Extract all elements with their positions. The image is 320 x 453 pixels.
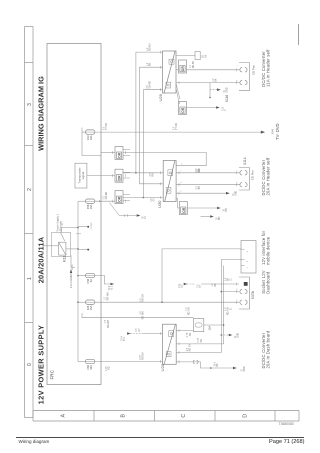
svg-text:1.0: 1.0	[186, 307, 188, 311]
wire F56 down with end arrow	[95, 276, 111, 285]
F60 wire label upper	[106, 366, 111, 371]
stub F23 from sub-compartment	[82, 131, 86, 133]
fuse pill inside output fuse box	[195, 323, 202, 327]
jog U30 to OR6	[176, 199, 179, 209]
svg-text:1.0: 1.0	[140, 311, 142, 315]
DC/DC converter U29 box	[163, 51, 177, 93]
ruler numbers 0 1 2 3	[27, 103, 33, 366]
DC/DC converter U20 box	[163, 324, 177, 364]
svg-text:30: 30	[62, 222, 64, 225]
svg-text:1.0: 1.0	[105, 296, 107, 300]
U20 fused wire label	[187, 332, 192, 337]
F24 wire label upper	[105, 292, 110, 300]
svg-text:OR: OR	[118, 196, 122, 202]
svg-text:0.75: 0.75	[106, 366, 108, 371]
svg-text:0.5: 0.5	[136, 328, 138, 332]
svg-text:BK: BK	[190, 332, 192, 336]
svg-text:0.5: 0.5	[197, 284, 199, 288]
svg-text:20A in Header self: 20A in Header self	[265, 157, 270, 195]
svg-text:1: 1	[236, 64, 238, 66]
connector X114 bracket	[239, 168, 249, 191]
wire U30 to X114 pin 1	[176, 172, 239, 174]
distribution bus A	[220, 260, 222, 353]
interface box pin numbers	[247, 250, 249, 269]
svg-text:1.0: 1.0	[140, 298, 142, 302]
svg-text:BK: BK	[215, 283, 217, 287]
wire into U20 top	[143, 333, 163, 335]
arrow B head	[210, 215, 214, 218]
FRC sub-compartment for F23	[82, 128, 101, 156]
svg-text:12V POWER SUPPLY: 12V POWER SUPPLY	[37, 325, 46, 405]
svg-text:2: 2	[236, 288, 238, 290]
connector OR4	[179, 60, 187, 73]
svg-text:Dashboard: Dashboard	[265, 271, 270, 294]
wire K11 coil to top	[44, 245, 59, 247]
wire K11 coil left pin	[71, 255, 75, 267]
svg-text:B 2: B 2	[112, 285, 114, 289]
X114 pin a arcs	[240, 183, 247, 187]
wire fuse box to bus A	[204, 324, 224, 326]
U29 pin box 2	[169, 59, 174, 64]
U20 output pin wire	[176, 352, 221, 354]
wire OR2 to U30 pin with branch to U29	[123, 172, 163, 174]
svg-text:1: 1	[236, 169, 238, 171]
From HMCU arrow	[70, 269, 72, 273]
svg-text:X4: X4	[205, 54, 207, 58]
X116 pin b arcs	[240, 68, 247, 72]
svg-text:3: 3	[27, 103, 33, 106]
bus A ground arrow	[229, 334, 233, 337]
wire FRC to OR1	[101, 152, 115, 154]
svg-text:4: 4	[182, 163, 184, 165]
svg-text:GY: GY	[154, 198, 156, 202]
svg-text:0: 0	[27, 363, 33, 366]
svg-text:1.0: 1.0	[147, 62, 149, 66]
svg-text:16.0: 16.0	[214, 361, 216, 366]
wire F24 branch to interface feed	[162, 249, 241, 302]
sheet corner mark	[298, 24, 300, 45]
svg-text:RD-WH: RD-WH	[107, 292, 109, 300]
FRC fuse/relay box	[47, 44, 101, 385]
OR3 wire label	[151, 198, 156, 202]
main feed bus inside FRC	[77, 201, 79, 361]
svg-text:1: 1	[247, 267, 249, 269]
svg-text:VT: VT	[200, 284, 202, 288]
connector OR3	[115, 191, 123, 204]
svg-text:OR: OR	[181, 66, 185, 72]
svg-text:BN: BN	[219, 216, 221, 220]
diagonal wires U29 to OR5	[176, 89, 179, 104]
svg-text:RD-BU: RD-BU	[143, 352, 145, 360]
footer left text	[19, 439, 50, 444]
svg-text:X10: X10	[222, 106, 224, 111]
U29 stub with inline box	[176, 55, 195, 57]
short drop wire with arrow A	[187, 207, 217, 209]
svg-text:U29: U29	[158, 93, 163, 101]
svg-text:11A in Header self: 11A in Header self	[265, 49, 270, 87]
svg-text:30: 30	[142, 216, 144, 219]
svg-text:B: B	[121, 413, 127, 417]
arrow A label	[223, 208, 228, 212]
svg-text:BK: BK	[199, 186, 201, 190]
upper reference arrow labels	[142, 215, 147, 219]
connector X37A bracket	[239, 277, 250, 309]
inline box labels	[202, 54, 208, 58]
stub bus to F56	[78, 275, 86, 277]
svg-text:0.5: 0.5	[150, 172, 152, 176]
connector OR1	[115, 147, 123, 160]
svg-text:0.5: 0.5	[103, 126, 105, 130]
bus A ground label	[235, 333, 240, 338]
svg-text:40A relay: 40A relay	[59, 220, 62, 231]
OR2 wire label	[150, 172, 155, 176]
svg-text:RD-BU: RD-BU	[150, 43, 152, 51]
U30 arrow	[226, 192, 230, 195]
svg-text:OR: OR	[118, 175, 122, 181]
svg-text:0.75: 0.75	[187, 332, 189, 337]
fuse F58	[86, 199, 95, 203]
wire branch to U29 pin 3	[143, 90, 162, 198]
bus A ground tap junction	[221, 334, 223, 336]
wire OR1 down to U30 right pin	[123, 153, 206, 166]
extra wire label below F56 ref	[212, 283, 217, 287]
F56 arrow reference label	[109, 285, 114, 290]
svg-text:0.5: 0.5	[103, 195, 105, 199]
arrow B label	[217, 216, 222, 220]
wire U29 through OR4 to X116 pin 1	[176, 69, 179, 71]
svg-text:0.75: 0.75	[198, 337, 200, 342]
TV-DVD arrow	[261, 131, 265, 134]
stub bus to F24	[78, 301, 86, 303]
svg-text:BK: BK	[216, 78, 218, 82]
bus terminal stub right	[79, 226, 89, 228]
svg-text:31: 31	[233, 193, 235, 196]
svg-text:30: 30	[217, 217, 219, 220]
svg-text:2: 2	[247, 260, 249, 262]
wire U30 pin to page arrow	[176, 192, 226, 194]
upper reference wire	[119, 215, 137, 217]
F23 value label	[86, 135, 93, 140]
svg-text:F56: F56	[179, 283, 181, 288]
svg-text:1: 1	[236, 298, 238, 300]
svg-text:20A in Dash board: 20A in Dash board	[265, 330, 270, 368]
footer right page number	[269, 439, 304, 445]
relay K11 outer box	[52, 233, 71, 257]
wire Transponder box to OR2	[87, 175, 115, 177]
12V interface connector box	[241, 241, 256, 274]
assorted pin tick marks	[160, 51, 236, 364]
svg-text:2.5: 2.5	[196, 185, 198, 189]
U20 ground end arrow	[233, 367, 237, 370]
wire OR5 down to arrow	[187, 107, 217, 109]
svg-text:1.0: 1.0	[212, 283, 214, 287]
svg-text:D: D	[243, 414, 249, 418]
F56 source reference label	[179, 283, 184, 288]
U20 output label	[187, 343, 192, 351]
connector OR6	[179, 202, 187, 215]
svg-text:WIRING DIAGRAM IG: WIRING DIAGRAM IG	[37, 76, 46, 151]
svg-text:2.5: 2.5	[187, 347, 189, 351]
svg-text:2.5: 2.5	[196, 168, 198, 172]
svg-text:U20: U20	[160, 363, 165, 371]
svg-text:1.0: 1.0	[225, 307, 227, 311]
connector OR5	[179, 102, 187, 115]
connector pin numbers	[236, 64, 238, 300]
inline box on U29 stub	[195, 52, 200, 60]
svg-text:1.0: 1.0	[147, 47, 149, 51]
svg-text:B 4: B 4	[124, 337, 126, 341]
svg-text:RD-BU: RD-BU	[193, 60, 195, 68]
svg-text:RD: RD	[199, 168, 201, 172]
wire F23 to TV-DVD	[95, 131, 261, 133]
svg-text:31: 31	[224, 89, 226, 92]
fuse F60	[86, 359, 95, 363]
OR1 wire label	[196, 169, 201, 173]
upper reference arrow head	[137, 214, 141, 217]
wire OR3 to U30 pin with branch to U29	[123, 197, 163, 199]
U20 input reference arrow	[127, 332, 131, 334]
svg-text:X37A: X37A	[251, 290, 255, 299]
svg-text:RD-WH: RD-WH	[143, 311, 145, 319]
svg-text:OR: OR	[182, 207, 186, 213]
connector OR2	[115, 169, 123, 182]
FRC feed wire label	[105, 319, 110, 328]
stub bus to F58	[78, 200, 86, 202]
svg-text:10A: 10A	[89, 204, 93, 209]
svg-text:GND: GND	[238, 333, 240, 338]
U29 pin labels	[147, 43, 152, 88]
wire F58 to OR3	[95, 200, 115, 202]
short drop wire with arrow B	[201, 216, 211, 218]
svg-text:X9/4: X9/4	[270, 128, 274, 134]
OR1 output pair stubs	[123, 150, 130, 156]
svg-text:1: 1	[27, 277, 33, 280]
DC/DC converter U30 box	[163, 161, 176, 202]
relay annotation Power Supply 1 40A relay	[56, 213, 62, 231]
tap junction dot	[209, 97, 211, 99]
svg-text:RD-WH: RD-WH	[108, 320, 110, 328]
OR2 output pair stubs	[123, 172, 130, 178]
wire F60 to U20	[95, 361, 163, 363]
diagonal link OR3 to reference wire	[110, 203, 120, 216]
drawing number	[279, 422, 294, 426]
fuse F56	[86, 273, 95, 277]
wire U20 to output fuse	[176, 330, 193, 332]
svg-text:15A: 15A	[208, 326, 212, 331]
wire U30 pin to U29 pin 2	[140, 67, 164, 184]
bus junction dots	[221, 291, 225, 326]
F24 wire labels mid	[140, 311, 145, 320]
svg-text:U30: U30	[157, 200, 162, 208]
U20 output fuse box	[193, 319, 204, 332]
svg-text:2: 2	[236, 181, 238, 183]
U20 pin box 2	[169, 331, 174, 337]
svg-text:2: 2	[236, 79, 238, 81]
wire U29 to X116 pin 2	[176, 82, 240, 84]
svg-text:0.75: 0.75	[140, 355, 142, 360]
X114 feed label 1	[196, 168, 201, 172]
branch junction on OR2 wire	[135, 172, 137, 174]
F58 wire dot at box edge	[99, 201, 100, 202]
junction on U20 ground wire	[210, 367, 212, 369]
X37A feed wire labels left	[225, 307, 232, 315]
footer rule	[16, 437, 304, 438]
svg-text:0.5: 0.5	[147, 85, 149, 89]
svg-text:signal: signal	[81, 171, 85, 179]
F23 wire label upper	[103, 123, 108, 130]
svg-text:2.5 RD: 2.5 RD	[91, 222, 93, 229]
F58 wire label	[103, 191, 108, 199]
label DC/DC Converter 20A in Dash board	[261, 330, 271, 368]
svg-text:31: 31	[230, 278, 232, 281]
svg-text:86 85: 86 85	[72, 264, 74, 270]
svg-text:1.0: 1.0	[225, 277, 227, 281]
upper reference pin ticks	[125, 214, 128, 217]
svg-text:CB Pwr: CB Pwr	[251, 65, 255, 75]
Transponder signal box text	[77, 167, 85, 183]
OR4 wire label	[190, 60, 195, 68]
connector X116 bracket	[239, 63, 249, 91]
wire to X37A left pin	[201, 283, 239, 285]
X37A feed wire labels right	[225, 277, 232, 281]
svg-text:OR: OR	[118, 152, 122, 158]
svg-text:GN-RD: GN-RD	[150, 81, 152, 89]
svg-text:4.7: 4.7	[145, 215, 147, 219]
U30 bottom pin numbers	[181, 163, 184, 192]
svg-text:2: 2	[225, 109, 227, 111]
letter strip (left of landscape sheet)	[33, 411, 299, 422]
wire bus to interface pin 2	[221, 259, 241, 261]
svg-text:OR: OR	[181, 107, 185, 113]
label 12V interface for mobile device	[261, 230, 271, 265]
svg-text:TV- DVD: TV- DVD	[275, 123, 280, 140]
svg-text:5A: 5A	[202, 55, 205, 58]
svg-text:2: 2	[27, 188, 33, 191]
dashed wire into U20	[131, 333, 143, 335]
F24 wire label lower	[186, 307, 191, 315]
X37A pin arcs	[240, 300, 247, 304]
svg-text:BK: BK	[228, 277, 230, 281]
fuse F24	[86, 300, 95, 304]
wire bus to X37A mid pin	[221, 291, 239, 293]
F58 value label	[86, 204, 93, 209]
U20 input wire label	[136, 328, 141, 332]
svg-text:GND: GND	[236, 190, 238, 195]
OR3 output pair stubs	[123, 195, 130, 201]
ground wire label	[214, 361, 219, 366]
svg-text:15A: 15A	[89, 305, 93, 310]
svg-text:BK: BK	[217, 363, 219, 367]
svg-text:BN: BN	[150, 62, 152, 66]
X37A filled pin	[244, 282, 248, 286]
fuse F23	[86, 130, 95, 134]
F56 source arrow	[184, 283, 188, 285]
svg-text:GND: GND	[227, 87, 229, 92]
F56 end arrow	[111, 283, 115, 285]
svg-text:GY: GY	[139, 328, 141, 332]
svg-text:30: 30	[223, 208, 225, 211]
svg-text:RD-GN: RD-GN	[189, 307, 191, 315]
svg-text:10A: 10A	[89, 135, 93, 140]
X114 feed label 2	[196, 185, 201, 189]
svg-text:70.4: 70.4	[109, 285, 111, 290]
X114 pin b arcs	[240, 171, 247, 175]
svg-text:31: 31	[230, 307, 232, 310]
bus A ground dashed wire	[221, 334, 228, 336]
svg-text:70.4: 70.4	[121, 336, 123, 341]
svg-text:30A: 30A	[89, 365, 93, 370]
svg-text:VT-OR: VT-OR	[176, 123, 178, 130]
svg-text:2: 2	[181, 181, 183, 183]
wire K11 contact down to bus	[61, 227, 78, 229]
U30 arrow reference label	[233, 190, 238, 195]
F56 reference wire label	[197, 284, 202, 288]
X116 pin a arcs	[240, 80, 247, 84]
U30 pin box 1	[166, 187, 171, 193]
svg-text:0.5: 0.5	[173, 126, 175, 130]
wire K11 coil down to bus	[66, 248, 78, 250]
OR5 end arrow	[216, 106, 220, 109]
wire F24 to X37A	[95, 301, 239, 303]
svg-text:BN: BN	[153, 173, 155, 177]
svg-text:4: 4	[247, 250, 249, 252]
svg-text:RD-GN: RD-GN	[143, 294, 145, 302]
U29 pin box 1	[166, 82, 171, 88]
dashed reference from tap	[210, 89, 217, 91]
U20 pin box 1	[166, 352, 171, 357]
svg-text:5A: 5A	[89, 279, 93, 282]
OR5 arrow label	[222, 106, 227, 111]
label DC/DC Converter 20A in Header self	[261, 157, 271, 195]
svg-text:3: 3	[181, 190, 183, 192]
svg-text:A: A	[61, 413, 67, 417]
svg-text:RD-GY: RD-GY	[190, 343, 192, 351]
svg-text:1.0: 1.0	[213, 78, 215, 82]
X116 feed wire label	[213, 78, 218, 82]
svg-text:20A/20A/11A: 20A/20A/11A	[37, 236, 46, 283]
svg-text:31: 31	[235, 335, 237, 338]
tap on X116 wire	[209, 83, 211, 98]
F56 value label	[86, 278, 93, 283]
wire OR4 to X116	[187, 69, 240, 71]
svg-text:GN-RD: GN-RD	[106, 191, 108, 199]
number ruler strip (top of landscape sheet)	[25, 27, 34, 418]
svg-text:GN: GN	[201, 339, 203, 343]
svg-text:GND: GND	[244, 366, 246, 371]
relay K11 coil box	[59, 242, 66, 255]
FRC internal feed to output fuse	[82, 313, 193, 318]
svg-text:X116: X116	[225, 95, 229, 103]
distribution bus B	[223, 266, 225, 344]
arrow A head	[217, 207, 221, 210]
bus terminal stub left	[79, 249, 89, 251]
Transponder signal box	[75, 163, 87, 188]
U20 second output wire	[176, 343, 223, 345]
stub bus to F60	[78, 361, 86, 363]
wire U30 to X114 pin 2	[176, 184, 239, 186]
relay K11 contact arm	[61, 228, 65, 242]
label DC/DC Converter 11A in Header self	[261, 49, 271, 87]
label Socket 12V Dashboard	[261, 270, 271, 293]
F24 value label	[86, 305, 93, 310]
U30 pin box 2	[168, 170, 173, 176]
X37A mid pin arcs	[240, 289, 247, 293]
svg-text:1: 1	[181, 169, 183, 171]
svg-text:31: 31	[241, 368, 243, 371]
F24 branch junction	[161, 301, 163, 303]
F60 wire label lower	[140, 352, 145, 360]
svg-text:1.0: 1.0	[190, 64, 192, 68]
